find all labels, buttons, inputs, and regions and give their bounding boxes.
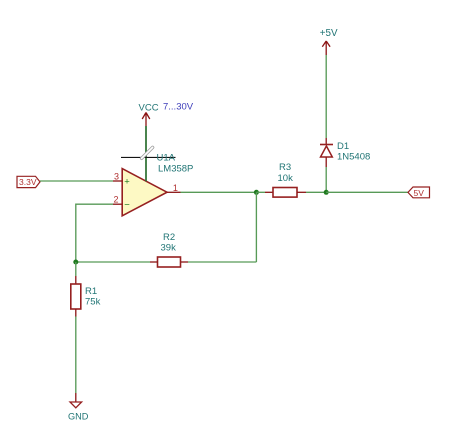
junction node A [254,190,259,195]
graphic line through U1A [121,156,176,158]
svg-text:R3: R3 [279,162,291,173]
output label 5V [408,187,430,198]
wire R1 to GND [75,317,77,394]
svg-text:1: 1 [173,183,178,193]
wire R3 to node B [306,191,326,193]
op-amp power pin V+ wire from VCC [145,126,147,181]
svg-text:1N5408: 1N5408 [337,152,370,163]
junction node C [73,260,78,265]
pin 1 of U1A [167,191,181,193]
wire node B to 5V label [326,191,408,193]
input label 3.3V [17,176,40,187]
svg-text:+5V: +5V [320,28,338,39]
svg-text:D1: D1 [337,141,349,152]
diode D1 1N5408 [320,138,370,167]
svg-text:2: 2 [114,194,119,204]
DNP slash marker [142,147,153,158]
svg-text:75k: 75k [85,297,101,308]
pin 2 of U1A [113,203,122,205]
wire 3.3V to pin 3 [40,180,113,182]
power flag +5V [320,28,338,55]
wire node C to R1 [75,262,77,276]
svg-text:+: + [124,176,130,187]
resistor R3 10k [265,162,306,197]
svg-text:−: − [124,200,130,211]
resistor R1 75k [71,276,101,317]
wire +5V to diode D1 cathode [325,55,327,138]
wire pin 2 to feedback corner [76,204,113,262]
wire feedback row right segment [188,261,256,263]
svg-text:10k: 10k [278,173,294,184]
svg-text:GND: GND [68,412,89,422]
pin 3 of U1A [113,180,122,182]
svg-text:5V: 5V [414,188,425,198]
power flag VCC [139,103,159,127]
svg-text:VCC: VCC [139,103,159,114]
wire output to node A [181,191,257,193]
svg-text:3.3V: 3.3V [19,177,37,187]
svg-text:R1: R1 [85,286,97,297]
svg-text:39k: 39k [161,243,177,254]
wire node A to R3 [256,191,265,193]
svg-text:U1A: U1A [157,153,176,164]
wire node A down to feedback row [255,192,257,262]
op-amp U1 LM358P [122,169,167,216]
junction node B [324,190,329,195]
wire R2 to node C [76,261,150,263]
ground GND [68,393,89,422]
svg-text:R2: R2 [163,232,175,243]
resistor R2 39k [150,232,188,267]
svg-text:LM358P: LM358P [158,164,193,175]
wire diode anode to node B [325,167,327,192]
svg-text:7...30V: 7...30V [163,102,194,113]
svg-text:3: 3 [114,171,119,181]
